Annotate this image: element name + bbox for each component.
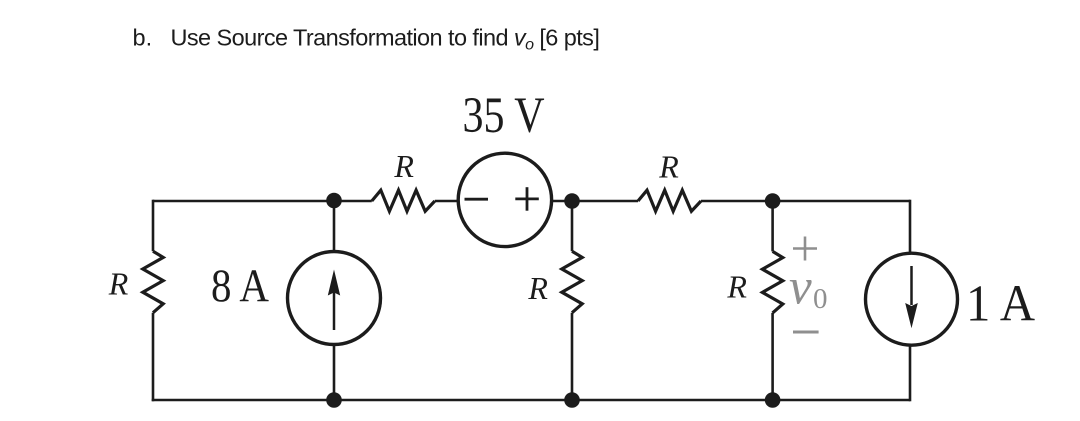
vo polarity plus (gray)	[793, 237, 817, 261]
svg-text:b.: b.	[133, 25, 153, 51]
node top at 8A branch	[326, 193, 342, 209]
wire R4 to top-right corner	[701, 200, 910, 203]
svg-text:35 V: 35 V	[463, 87, 545, 143]
node top at right-R branch	[765, 193, 781, 209]
wire 8A branch upper	[333, 201, 336, 252]
value label 35 V	[463, 87, 545, 143]
resistor R1 label R	[108, 266, 129, 302]
node bottom at middle branch	[564, 392, 580, 408]
wire right vertical lower	[909, 346, 912, 402]
svg-text:R: R	[658, 148, 679, 184]
resistor R1 (left vertical)	[143, 251, 163, 313]
svg-text:8 A: 8 A	[211, 260, 269, 312]
current source I2 1A (circle)	[866, 253, 958, 345]
vo label (gray)	[789, 260, 828, 316]
current source I2 arrow (down)	[905, 266, 918, 328]
resistor R4 (top horizontal right)	[638, 190, 701, 211]
svg-text:1 A: 1 A	[966, 275, 1035, 332]
resistor R2 (top horizontal left)	[372, 190, 435, 211]
current source I1 arrow (up)	[328, 270, 340, 331]
svg-text:R: R	[726, 269, 747, 305]
wire bottom rail	[152, 399, 910, 402]
V1 minus terminal symbol	[465, 198, 489, 201]
value label 8 A	[211, 260, 269, 312]
wire right-R branch upper	[771, 201, 774, 251]
voltage source V1 35V (circle)	[458, 153, 551, 246]
value label 1 A	[966, 275, 1035, 332]
node top at middle branch	[564, 193, 580, 209]
current source I1 8A (circle)	[288, 252, 381, 345]
svg-text:0: 0	[813, 283, 828, 315]
wire left vertical lower	[152, 313, 155, 402]
svg-text:R: R	[393, 148, 414, 184]
svg-text:Use Source Transformation to f: Use Source Transformation to find vo [6 …	[171, 25, 600, 54]
wire right-R branch lower	[771, 313, 774, 400]
wire 8A branch lower	[333, 344, 336, 400]
node bottom at 8A branch	[326, 392, 342, 408]
resistor R5 label R	[726, 269, 747, 305]
wire middle branch upper	[571, 201, 574, 251]
resistor R3 (middle vertical)	[562, 251, 582, 313]
resistor R2 label R	[393, 148, 414, 184]
svg-text:R: R	[527, 270, 548, 306]
wire right vertical upper	[909, 200, 912, 253]
svg-text:R: R	[108, 266, 129, 302]
wire left vertical upper	[152, 200, 155, 252]
V1 plus terminal symbol	[515, 187, 539, 211]
wire V1 right terminal to R4	[553, 200, 639, 203]
wire top-left segment (left corner to R2)	[153, 200, 372, 203]
problem statement text	[133, 25, 600, 54]
node bottom at right-R branch	[765, 392, 781, 408]
svg-text:v: v	[789, 260, 812, 316]
vo polarity minus (gray)	[793, 331, 819, 334]
wire R2 to V1 left terminal	[435, 200, 458, 203]
resistor R5 (right vertical, vo across)	[762, 251, 782, 313]
wire middle branch lower	[571, 313, 574, 400]
resistor R4 label R	[658, 148, 679, 184]
resistor R3 label R	[527, 270, 548, 306]
